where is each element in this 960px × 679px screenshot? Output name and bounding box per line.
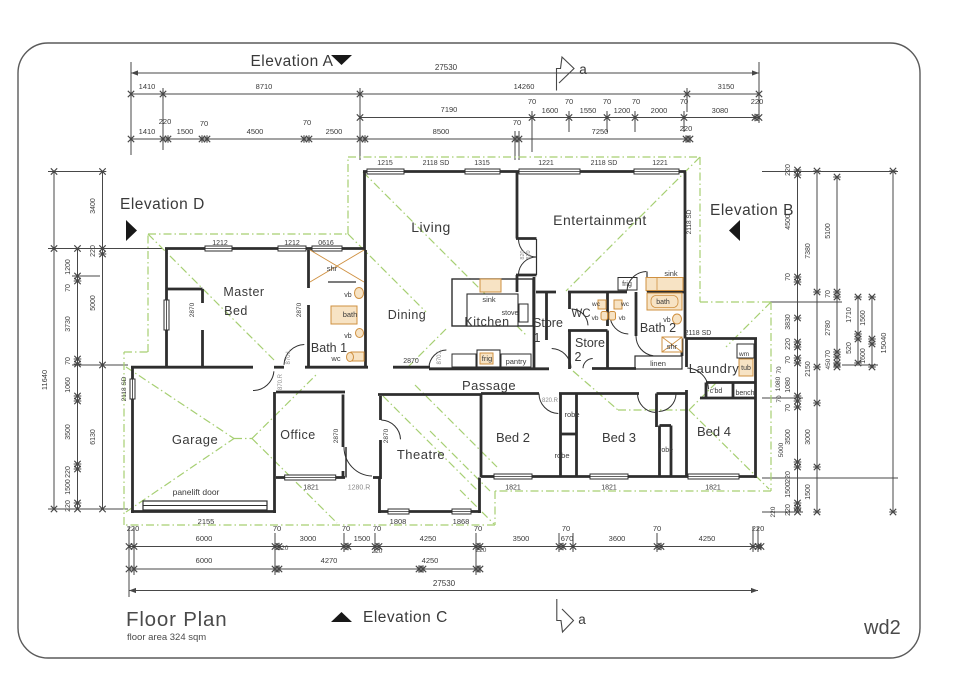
svg-text:1200: 1200	[614, 106, 631, 115]
svg-text:vb: vb	[344, 333, 352, 340]
svg-text:wd2: wd2	[863, 617, 901, 639]
svg-text:8500: 8500	[433, 127, 450, 136]
svg-text:bath: bath	[656, 299, 670, 306]
svg-text:1080: 1080	[775, 376, 782, 391]
svg-text:70: 70	[785, 404, 792, 412]
svg-text:2118 SD: 2118 SD	[591, 160, 618, 167]
svg-text:2118 SD: 2118 SD	[121, 376, 128, 401]
svg-text:4250: 4250	[699, 534, 716, 543]
svg-text:1080: 1080	[785, 377, 792, 393]
svg-text:3830: 3830	[785, 314, 792, 330]
svg-text:1212: 1212	[284, 240, 300, 247]
svg-text:3150: 3150	[718, 82, 735, 91]
svg-text:14260: 14260	[514, 82, 535, 91]
svg-text:1500: 1500	[65, 479, 72, 495]
svg-text:1500: 1500	[354, 534, 371, 543]
svg-text:4250: 4250	[420, 534, 437, 543]
svg-text:bench: bench	[735, 390, 754, 397]
svg-text:1315: 1315	[474, 160, 490, 167]
svg-text:220: 220	[751, 97, 764, 106]
svg-text:1221: 1221	[538, 160, 554, 167]
svg-text:1500: 1500	[805, 484, 812, 500]
svg-text:c'bd: c'bd	[710, 388, 723, 395]
svg-text:220: 220	[65, 500, 72, 512]
svg-text:2780: 2780	[825, 320, 832, 336]
svg-text:27530: 27530	[433, 579, 456, 588]
svg-text:2000: 2000	[651, 106, 668, 115]
svg-text:70: 70	[65, 284, 72, 292]
svg-text:Bath 2: Bath 2	[640, 321, 676, 335]
svg-text:70: 70	[603, 97, 611, 106]
svg-text:vb: vb	[344, 292, 352, 299]
svg-text:1821: 1821	[505, 485, 521, 492]
svg-text:2118 SD: 2118 SD	[685, 330, 712, 337]
svg-text:1215: 1215	[377, 160, 393, 167]
svg-text:870.R: 870.R	[278, 373, 284, 390]
svg-text:220: 220	[785, 338, 792, 350]
svg-text:Theatre: Theatre	[397, 447, 445, 462]
svg-text:1221: 1221	[652, 160, 668, 167]
svg-text:WC: WC	[571, 308, 590, 320]
svg-text:820: 820	[526, 250, 532, 259]
svg-text:70: 70	[785, 273, 792, 281]
svg-text:Entertainment: Entertainment	[553, 212, 647, 228]
svg-text:220: 220	[785, 504, 792, 516]
svg-text:3730: 3730	[65, 316, 72, 332]
svg-text:7250: 7250	[592, 127, 609, 136]
svg-text:1060: 1060	[65, 377, 72, 393]
svg-text:Bed: Bed	[224, 304, 248, 318]
svg-text:1600: 1600	[860, 348, 867, 364]
svg-text:4270: 4270	[321, 556, 338, 565]
svg-text:220: 220	[680, 124, 693, 133]
svg-text:shr: shr	[667, 342, 678, 351]
svg-text:3080: 3080	[712, 106, 729, 115]
svg-text:3000: 3000	[805, 429, 812, 445]
svg-text:2: 2	[575, 350, 582, 364]
svg-text:220: 220	[476, 547, 487, 554]
svg-text:870.L: 870.L	[437, 349, 443, 365]
svg-text:220: 220	[278, 545, 289, 552]
svg-text:1410: 1410	[139, 127, 156, 136]
svg-text:870.L: 870.L	[286, 349, 292, 365]
svg-text:Store: Store	[575, 336, 605, 350]
svg-text:Elevation C: Elevation C	[363, 609, 448, 626]
svg-text:1600: 1600	[542, 106, 559, 115]
svg-text:wm: wm	[738, 351, 749, 358]
svg-text:220: 220	[159, 117, 172, 126]
svg-text:1200: 1200	[65, 259, 72, 275]
svg-text:panelift door: panelift door	[173, 487, 220, 497]
svg-text:450: 450	[825, 358, 832, 369]
svg-text:11640: 11640	[40, 370, 49, 390]
svg-text:vb: vb	[619, 315, 626, 322]
svg-text:70: 70	[303, 118, 311, 127]
svg-text:220: 220	[785, 471, 792, 483]
svg-text:2870: 2870	[296, 302, 303, 317]
svg-text:5000: 5000	[778, 442, 785, 457]
svg-text:220: 220	[785, 164, 792, 176]
svg-text:70: 70	[825, 350, 832, 358]
svg-text:Living: Living	[411, 219, 451, 235]
svg-text:a: a	[578, 612, 586, 627]
svg-text:wc: wc	[620, 301, 630, 308]
svg-text:shr: shr	[327, 264, 338, 273]
svg-text:70: 70	[565, 97, 573, 106]
svg-text:Elevation B: Elevation B	[710, 202, 794, 219]
svg-text:bath: bath	[343, 310, 358, 319]
svg-text:2870: 2870	[403, 358, 419, 365]
svg-text:70: 70	[528, 97, 536, 106]
svg-text:6130: 6130	[90, 429, 97, 445]
svg-text:670: 670	[561, 534, 574, 543]
svg-text:70: 70	[65, 357, 72, 365]
svg-text:220: 220	[372, 548, 383, 555]
svg-text:2118 SD: 2118 SD	[423, 160, 450, 167]
svg-text:Office: Office	[280, 428, 315, 442]
svg-text:wc: wc	[591, 301, 601, 308]
svg-text:1560: 1560	[860, 310, 867, 326]
svg-text:pantry: pantry	[506, 357, 527, 366]
svg-text:70: 70	[513, 118, 521, 127]
svg-text:frig: frig	[622, 281, 632, 288]
svg-text:1: 1	[534, 331, 541, 345]
svg-text:4500: 4500	[247, 127, 264, 136]
svg-text:wc: wc	[330, 354, 340, 363]
svg-text:4250: 4250	[422, 556, 439, 565]
svg-text:1550: 1550	[580, 106, 597, 115]
svg-text:tub: tub	[741, 365, 751, 372]
svg-text:2870: 2870	[189, 302, 196, 317]
svg-text:Bed 4: Bed 4	[697, 424, 731, 439]
svg-text:3400: 3400	[90, 198, 97, 214]
svg-text:Floor Plan: Floor Plan	[126, 608, 227, 631]
svg-text:70: 70	[785, 356, 792, 364]
svg-text:220: 220	[90, 245, 97, 257]
svg-text:Kitchen: Kitchen	[464, 315, 509, 329]
svg-text:6000: 6000	[196, 556, 213, 565]
svg-text:sink: sink	[482, 295, 496, 304]
svg-text:2500: 2500	[326, 127, 343, 136]
svg-text:8710: 8710	[256, 82, 273, 91]
svg-text:frig: frig	[482, 354, 492, 363]
svg-text:2870: 2870	[333, 428, 340, 443]
svg-text:220: 220	[65, 466, 72, 478]
svg-text:Bed 3: Bed 3	[602, 430, 636, 445]
svg-text:1500: 1500	[785, 482, 792, 498]
svg-text:1821: 1821	[601, 485, 617, 492]
svg-text:70: 70	[632, 97, 640, 106]
svg-text:6000: 6000	[196, 534, 213, 543]
svg-text:robe: robe	[554, 451, 569, 460]
svg-text:5000: 5000	[90, 295, 97, 311]
svg-text:1821: 1821	[303, 485, 319, 492]
svg-text:1821: 1821	[705, 485, 721, 492]
svg-text:70: 70	[562, 524, 570, 533]
svg-text:70: 70	[653, 524, 661, 533]
svg-text:2118 SD: 2118 SD	[686, 209, 693, 234]
svg-text:robe: robe	[659, 447, 673, 454]
svg-text:5100: 5100	[825, 223, 832, 239]
svg-text:70: 70	[825, 290, 832, 298]
svg-text:70: 70	[200, 119, 208, 128]
svg-text:Bath 1: Bath 1	[311, 341, 347, 355]
svg-text:520: 520	[846, 342, 853, 354]
svg-text:7190: 7190	[441, 105, 458, 114]
svg-text:linen: linen	[650, 359, 666, 368]
svg-text:0616: 0616	[318, 240, 334, 247]
svg-text:Master: Master	[223, 285, 264, 299]
svg-text:Passage: Passage	[462, 378, 516, 393]
svg-text:1410: 1410	[139, 82, 156, 91]
svg-text:1710: 1710	[846, 307, 853, 323]
svg-text:3500: 3500	[65, 424, 72, 440]
svg-text:Elevation A: Elevation A	[250, 53, 333, 70]
svg-text:Bed 2: Bed 2	[496, 430, 530, 445]
svg-text:3600: 3600	[609, 534, 626, 543]
svg-text:1280.R: 1280.R	[348, 485, 371, 492]
svg-text:70: 70	[776, 366, 783, 374]
svg-text:sink: sink	[664, 269, 678, 278]
svg-text:27530: 27530	[435, 63, 458, 72]
svg-text:1212: 1212	[212, 240, 228, 247]
svg-text:floor area 324 sqm: floor area 324 sqm	[127, 632, 206, 643]
svg-text:15040: 15040	[879, 333, 888, 354]
svg-text:robe: robe	[564, 410, 579, 419]
svg-text:3000: 3000	[300, 534, 317, 543]
svg-text:Elevation D: Elevation D	[120, 196, 205, 213]
svg-text:70: 70	[776, 395, 783, 403]
svg-text:3500: 3500	[513, 534, 530, 543]
svg-text:3500: 3500	[785, 429, 792, 445]
svg-text:vb: vb	[592, 315, 599, 322]
svg-text:2150: 2150	[805, 361, 812, 377]
svg-text:Garage: Garage	[172, 432, 218, 447]
svg-text:a: a	[579, 62, 587, 77]
svg-text:70: 70	[680, 97, 688, 106]
svg-text:Dining: Dining	[388, 308, 426, 322]
svg-text:Laundry: Laundry	[689, 361, 739, 376]
svg-text:220: 220	[770, 506, 777, 517]
svg-text:2870: 2870	[383, 428, 390, 443]
svg-text:1500: 1500	[177, 127, 194, 136]
svg-text:Store: Store	[533, 316, 563, 330]
svg-text:7380: 7380	[805, 243, 812, 259]
svg-text:820.R: 820.R	[542, 398, 559, 404]
